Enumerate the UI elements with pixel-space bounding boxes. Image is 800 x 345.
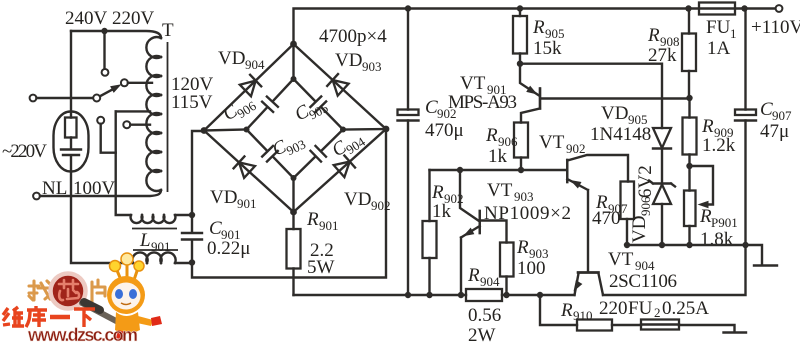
- svg-text:VT: VT: [487, 180, 513, 201]
- watermark mascot: [107, 253, 162, 340]
- svg-text:1A: 1A: [707, 38, 731, 59]
- svg-text:902: 902: [566, 141, 586, 156]
- text R903 label: [516, 237, 549, 261]
- text C907 label: [760, 99, 792, 123]
- text VT904 label: [608, 249, 655, 273]
- svg-text:VT: VT: [608, 249, 634, 270]
- svg-text:R: R: [516, 237, 529, 258]
- text 4700p x4: [319, 26, 387, 47]
- svg-text:910: 910: [573, 308, 593, 323]
- text VD904 label: [218, 48, 265, 72]
- node 240V junction: [101, 28, 107, 34]
- potentiometer RP901: [684, 166, 713, 245]
- svg-text:220V: 220V: [112, 8, 155, 29]
- node bridge right vertex: [383, 126, 390, 133]
- svg-text:1k: 1k: [432, 201, 452, 222]
- text L901 label: [139, 230, 171, 254]
- text FU2 value 0.25A: [662, 298, 709, 319]
- node VT901 base junction: [686, 95, 692, 101]
- text VD905 label: [601, 103, 648, 127]
- text R901 label: [306, 209, 339, 233]
- wire left vertical from 240V line down to L901 bottom: [71, 31, 133, 263]
- text 100V: [73, 178, 116, 199]
- svg-text:47μ: 47μ: [760, 121, 789, 142]
- svg-text:902: 902: [371, 198, 391, 213]
- wire zener ground rail: [627, 245, 762, 264]
- svg-text:220: 220: [599, 298, 628, 319]
- svg-text:1N4148: 1N4148: [590, 124, 651, 145]
- text FU1 label: [706, 17, 737, 41]
- text NL: [42, 178, 67, 199]
- svg-text:R: R: [431, 182, 444, 203]
- svg-text:NP1009×2: NP1009×2: [484, 203, 571, 224]
- node R909 RP901 junction: [686, 163, 692, 169]
- text R906 label: [485, 125, 518, 149]
- wire inner edge for C905: [294, 79, 344, 130]
- svg-text:0.22μ: 0.22μ: [207, 238, 250, 259]
- svg-text:VD: VD: [601, 103, 628, 124]
- node bridge bottom vertex: [290, 209, 297, 216]
- text 220V: [112, 8, 155, 29]
- wire bridge inner diamond link top: [291, 44, 297, 82]
- text VD902 label: [344, 189, 391, 213]
- svg-text:R: R: [532, 17, 545, 38]
- text R908 value: [648, 45, 677, 66]
- text T transformer designator: [162, 20, 174, 41]
- transistor VT902: [567, 155, 628, 272]
- transformer T primary winding: [146, 37, 161, 191]
- resistor R904: [466, 289, 502, 301]
- text R910 value 220: [599, 298, 628, 319]
- text C901 label: [209, 218, 241, 242]
- svg-text:2W: 2W: [468, 325, 496, 345]
- wire top positive rail: [294, 9, 776, 45]
- node C902 top: [405, 5, 411, 11]
- wire L901 top output: [175, 212, 195, 218]
- text FU2 label: [628, 298, 661, 320]
- resistor R909: [683, 98, 697, 166]
- text R909 value: [702, 135, 736, 156]
- svg-text:FU: FU: [706, 17, 731, 38]
- capacitor C906: [262, 97, 278, 112]
- text C907 value: [760, 121, 789, 142]
- capacitor C903: [262, 146, 278, 162]
- text C906 label: [219, 90, 259, 128]
- svg-text:www.dzsc.com: www.dzsc.com: [27, 325, 138, 345]
- text R908 label: [647, 25, 680, 49]
- wire bridge inner diamond link left: [204, 127, 250, 133]
- svg-text:1.8k: 1.8k: [700, 229, 734, 250]
- text VD903 label: [335, 50, 382, 74]
- svg-text:T: T: [162, 20, 174, 41]
- resistor R906: [514, 123, 528, 171]
- svg-text:115V: 115V: [171, 92, 213, 113]
- watermark www.dzsc.com: [27, 325, 138, 345]
- svg-text:901: 901: [237, 196, 257, 211]
- node VT903 emitter bottom: [458, 292, 464, 298]
- lamp NL envelope: [54, 112, 89, 172]
- text R907 label: [595, 192, 628, 216]
- node FU1 right junction: [741, 5, 747, 11]
- svg-text:R: R: [701, 116, 714, 137]
- text VT901 type MPS-A93: [448, 92, 517, 113]
- svg-text:901: 901: [319, 218, 339, 233]
- svg-text:240V: 240V: [65, 8, 108, 29]
- text 120V: [171, 74, 214, 95]
- text 240V: [65, 8, 108, 29]
- text C905 label: [291, 92, 330, 128]
- text R909 label: [701, 116, 734, 140]
- svg-text:1: 1: [730, 26, 737, 41]
- text C904 label: [328, 126, 368, 164]
- wire bridge inner diamond link bottom: [291, 175, 297, 212]
- svg-text:470: 470: [592, 208, 621, 229]
- watermark logo zhao xin pian stamp: [29, 274, 118, 323]
- node C902 bottom: [405, 292, 411, 298]
- wire bridge outer diamond edges: [204, 44, 386, 212]
- node R902 bottom: [426, 292, 432, 298]
- text VD901 label: [210, 187, 257, 211]
- capacitor C904: [311, 146, 327, 162]
- text VT903 type NP1009x2: [484, 203, 571, 224]
- diode VD902: [334, 156, 355, 178]
- resistor R903: [500, 243, 514, 296]
- text ~220V: [2, 141, 47, 162]
- resistor R910: [577, 320, 612, 331]
- text C901 value: [207, 238, 250, 259]
- svg-text:903: 903: [514, 189, 534, 204]
- transistor VT903: [460, 170, 507, 295]
- text R902 value: [432, 201, 452, 222]
- diode VD904: [240, 75, 261, 97]
- svg-text:906: 906: [638, 196, 653, 216]
- resistor R901: [287, 212, 301, 295]
- text R910 label: [560, 300, 593, 323]
- wire 120V tap: [116, 110, 150, 112]
- node VT901 emitter junction: [517, 61, 523, 67]
- wire 115V tap: [123, 121, 150, 128]
- svg-text:0.56: 0.56: [468, 305, 501, 326]
- capacitor C902 electrolytic: [398, 9, 419, 296]
- text R904 value: [468, 305, 501, 345]
- text VD905 type 1N4148: [590, 124, 651, 145]
- wire top 240V line: [71, 31, 161, 38]
- fuse FU1: [699, 3, 735, 15]
- inductor L901 top coil: [131, 215, 176, 223]
- text VT903 label: [487, 180, 534, 204]
- svg-text:P901: P901: [711, 215, 738, 230]
- resistor R905: [513, 9, 527, 64]
- svg-text:VT: VT: [539, 132, 565, 153]
- wire inner edge for C903: [247, 130, 294, 179]
- svg-text:R: R: [485, 125, 498, 146]
- wire switch common input: [30, 95, 101, 102]
- svg-text:~220V: ~220V: [2, 141, 47, 162]
- text C902 label: [425, 97, 457, 121]
- text VT904 type 2SC1106: [609, 271, 677, 292]
- zener diode VD906: [649, 181, 675, 246]
- diode VD901: [234, 156, 255, 178]
- svg-text:1k: 1k: [488, 146, 508, 167]
- wire bridge AC right return: [192, 129, 386, 278]
- svg-text:2SC1106: 2SC1106: [609, 271, 677, 292]
- svg-text:15k: 15k: [533, 38, 562, 59]
- svg-text:5W: 5W: [307, 257, 335, 278]
- svg-text:6V2: 6V2: [635, 165, 656, 198]
- text C903 label: [269, 128, 308, 163]
- svg-text:1.2k: 1.2k: [702, 135, 736, 156]
- text RP901 label: [699, 206, 738, 230]
- capacitor C905: [310, 97, 326, 113]
- node R906 bottom: [518, 167, 524, 173]
- wire taps vertical to L901: [116, 111, 131, 215]
- node C907 bottom: [742, 242, 748, 248]
- text +110V: [751, 17, 800, 38]
- svg-text:904: 904: [245, 57, 265, 72]
- node R903 bottom: [503, 292, 509, 298]
- svg-text:VD: VD: [629, 216, 650, 243]
- svg-text:0.25A: 0.25A: [662, 298, 709, 319]
- wire base distribution rail: [430, 169, 568, 171]
- lamp NL electrodes: [61, 150, 81, 156]
- node R910 branch tap: [537, 292, 543, 298]
- svg-text:VD: VD: [218, 48, 245, 69]
- transistor VT901: [520, 64, 690, 123]
- wire emitter rail to VD905: [520, 64, 662, 128]
- svg-text:904: 904: [480, 274, 500, 289]
- svg-text:R: R: [647, 25, 660, 46]
- inductor L901 bottom coil: [132, 252, 175, 263]
- text R905 label: [532, 17, 565, 41]
- capacitor C907 electrolytic: [735, 9, 756, 246]
- capacitor C901: [182, 215, 202, 263]
- text VT902 label: [539, 132, 586, 156]
- wire 240V tap drop: [102, 31, 109, 76]
- text FU1 value 1A: [707, 38, 731, 59]
- node R905 top: [517, 5, 523, 11]
- text R907 value: [592, 208, 621, 229]
- svg-text:901: 901: [151, 239, 171, 254]
- wire bridge AC left feed: [192, 131, 204, 215]
- text R903 value: [517, 258, 546, 279]
- svg-text:4700p×4: 4700p×4: [319, 26, 387, 47]
- resistor R908: [682, 9, 696, 99]
- text R902 label: [431, 182, 464, 206]
- node bridge top vertex: [290, 41, 297, 48]
- diode VD905: [653, 128, 671, 184]
- text R901 value: [307, 240, 335, 278]
- svg-text:+110V: +110V: [751, 17, 800, 38]
- text VT901 label: [460, 73, 507, 97]
- terminal +110V output: [776, 5, 783, 12]
- watermark weiku yixia red text: [3, 306, 95, 327]
- transformer T core: [167, 42, 169, 192]
- svg-text:27k: 27k: [648, 45, 677, 66]
- text R904 label: [467, 265, 500, 289]
- text R905 value: [533, 38, 562, 59]
- wire bottom negative rail: [294, 245, 746, 295]
- text R906 value: [488, 146, 508, 167]
- lamp NL internal resistor: [65, 118, 77, 138]
- node VT903 base tap: [457, 167, 463, 173]
- svg-text:VT: VT: [460, 73, 486, 94]
- transistor VT904: [574, 273, 604, 296]
- node R907 bottom: [624, 242, 630, 248]
- text 115V: [171, 92, 213, 113]
- inductor L901 core lines: [132, 229, 178, 251]
- fuse FU2: [641, 320, 679, 330]
- wire L901 bottom output: [175, 259, 195, 265]
- resistor R902: [423, 170, 437, 295]
- diode VD903: [327, 74, 348, 96]
- svg-text:VD: VD: [210, 187, 237, 208]
- svg-text:VD: VD: [344, 189, 371, 210]
- wire tap selector stub: [97, 117, 116, 153]
- switch arm with arrow: [100, 84, 122, 96]
- wire 100V bottom input: [33, 190, 161, 199]
- text C902 value: [425, 120, 464, 141]
- wire 220V tap: [121, 79, 152, 86]
- ground symbol right: [754, 264, 777, 266]
- svg-text:FU: FU: [628, 298, 653, 319]
- wire inner edge for C904: [294, 130, 344, 179]
- node VD906 bottom: [659, 242, 665, 248]
- svg-text:MPS-A93: MPS-A93: [448, 92, 517, 113]
- svg-text:R: R: [306, 209, 319, 230]
- wire inner edge for C906: [247, 79, 294, 130]
- text VD906 6V2 value vertical: [635, 165, 656, 198]
- svg-text:100: 100: [517, 258, 546, 279]
- ground symbol bottom: [724, 331, 747, 333]
- svg-text:2: 2: [654, 305, 661, 320]
- text VD906 label vertical: [629, 196, 653, 243]
- wire R910 branch: [540, 295, 735, 331]
- node bridge left vertex: [201, 127, 208, 134]
- node FU1 left junction: [685, 5, 691, 11]
- text RP901 value: [700, 229, 734, 250]
- svg-text:L: L: [139, 230, 151, 251]
- svg-text:903: 903: [362, 59, 382, 74]
- svg-text:R: R: [560, 300, 573, 321]
- resistor R907: [621, 182, 635, 246]
- svg-text:VD: VD: [335, 50, 362, 71]
- wire bridge inner diamond link right: [340, 127, 386, 133]
- svg-text:470μ: 470μ: [425, 120, 464, 141]
- node RP901 bottom: [686, 242, 692, 248]
- svg-text:R: R: [467, 265, 480, 286]
